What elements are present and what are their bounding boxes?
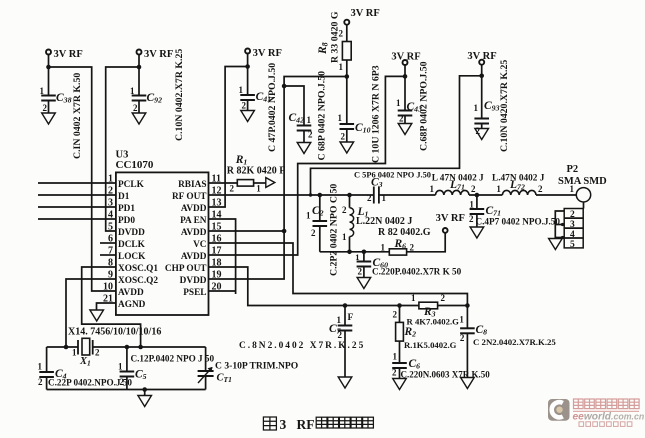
svg-text:1: 1 — [342, 232, 347, 242]
svg-text:2: 2 — [393, 310, 398, 320]
svg-text:2: 2 — [120, 377, 125, 387]
svg-text:XOSC.Q2: XOSC.Q2 — [118, 276, 158, 286]
svg-text:2: 2 — [469, 214, 474, 224]
svg-text:3V RF: 3V RF — [253, 48, 282, 59]
svg-text:R.1K5.0402.G: R.1K5.0402.G — [404, 340, 457, 350]
svg-text:R 82K 0420 F: R 82K 0420 F — [227, 166, 286, 177]
svg-text:X1: X1 — [79, 356, 91, 368]
svg-text:PD0: PD0 — [118, 216, 135, 226]
svg-text:2: 2 — [460, 333, 465, 343]
svg-text:2: 2 — [358, 267, 363, 277]
svg-text:X14. 7456/10/10/10/16: X14. 7456/10/10/10/16 — [68, 327, 161, 338]
svg-text:1: 1 — [239, 85, 244, 95]
svg-text:2: 2 — [471, 184, 476, 194]
svg-text:1: 1 — [38, 362, 43, 372]
svg-text:RF OUT: RF OUT — [172, 192, 207, 202]
svg-text:AVDD: AVDD — [118, 288, 144, 298]
svg-text:2: 2 — [308, 130, 313, 140]
svg-text:DVDD: DVDD — [118, 228, 145, 238]
svg-text:C.10N 0420.X7R K.25: C.10N 0420.X7R K.25 — [499, 60, 510, 152]
svg-text:L.47N 0402 J: L.47N 0402 J — [492, 173, 545, 183]
svg-text:3: 3 — [570, 220, 575, 230]
svg-text:13: 13 — [212, 198, 222, 209]
svg-text:1: 1 — [393, 352, 398, 362]
svg-text:C.220P.0402.X7R K 50: C.220P.0402.X7R K 50 — [372, 267, 462, 277]
svg-text:P2: P2 — [567, 164, 579, 175]
svg-text:2: 2 — [570, 210, 575, 220]
svg-text:2: 2 — [538, 184, 543, 194]
svg-text:RF: RF — [297, 417, 315, 432]
svg-text:C 47P.0402 NPO.J.50: C 47P.0402 NPO.J.50 — [267, 63, 278, 152]
svg-text:1: 1 — [381, 242, 386, 252]
svg-text:LOCK: LOCK — [118, 252, 146, 262]
svg-text:1: 1 — [355, 252, 359, 262]
svg-text:F: F — [348, 313, 354, 323]
svg-text:15: 15 — [212, 222, 222, 233]
svg-text:DCLK: DCLK — [118, 240, 146, 250]
svg-text:1: 1 — [307, 115, 312, 125]
svg-text:2: 2 — [392, 368, 397, 378]
svg-text:5: 5 — [108, 222, 113, 233]
svg-text:2: 2 — [242, 101, 247, 111]
svg-text:L.22N 0402 J: L.22N 0402 J — [356, 216, 412, 227]
svg-text:1: 1 — [337, 315, 342, 325]
svg-text:C.220N.0603 X7R K.50: C.220N.0603 X7R K.50 — [401, 370, 491, 380]
svg-text:CHP OUT: CHP OUT — [165, 264, 207, 274]
svg-text:C 68P 0402 NPO.J.50: C 68P 0402 NPO.J.50 — [317, 71, 328, 161]
svg-text:PD1: PD1 — [118, 204, 135, 214]
svg-text:1: 1 — [496, 184, 501, 194]
svg-text:C 3-10P TRIM.NPO: C 3-10P TRIM.NPO — [215, 361, 298, 372]
svg-text:1: 1 — [396, 98, 401, 108]
svg-text:C.2P2 0402 NPO C 50: C.2P2 0402 NPO C 50 — [329, 184, 340, 276]
svg-text:1: 1 — [570, 184, 575, 194]
svg-text:2: 2 — [410, 242, 415, 252]
svg-text:3V RF: 3V RF — [467, 51, 496, 62]
svg-text:AVDD: AVDD — [181, 252, 207, 262]
svg-text:3V RF: 3V RF — [351, 8, 380, 19]
svg-text:DVDD: DVDD — [180, 276, 207, 286]
svg-text:19: 19 — [212, 270, 222, 281]
svg-text:4: 4 — [570, 230, 575, 240]
svg-text:1: 1 — [40, 86, 45, 96]
svg-text:17: 17 — [212, 246, 222, 257]
svg-text:SMA SMD: SMA SMD — [558, 176, 607, 187]
svg-text:R 4K7.0402.G: R 4K7.0402.G — [407, 317, 460, 327]
svg-text:2: 2 — [133, 103, 138, 113]
svg-text:1: 1 — [411, 293, 416, 303]
svg-text:3V RF: 3V RF — [391, 52, 420, 63]
svg-text:XOSC.Q1: XOSC.Q1 — [118, 264, 158, 274]
svg-text:PCLK: PCLK — [118, 180, 145, 190]
svg-text:C 5P6 0402 NPO J.50: C 5P6 0402 NPO J.50 — [354, 170, 431, 179]
svg-text:eeworld.com.cn: eeworld.com.cn — [573, 412, 645, 423]
svg-text:D1: D1 — [118, 192, 130, 202]
svg-text:10: 10 — [103, 282, 113, 293]
svg-text:1: 1 — [256, 184, 261, 194]
svg-text:2: 2 — [230, 184, 235, 194]
svg-text:C.4P7 0402 NPO.J.50: C.4P7 0402 NPO.J.50 — [476, 217, 561, 227]
svg-text:C.10N 0402.X7R K.25: C.10N 0402.X7R K.25 — [174, 49, 185, 141]
svg-text:1: 1 — [118, 362, 123, 372]
svg-text:2: 2 — [441, 293, 446, 303]
svg-text:AVDD: AVDD — [181, 228, 207, 238]
svg-text:2: 2 — [342, 205, 347, 215]
svg-text:2: 2 — [476, 126, 481, 136]
svg-text:CC1070: CC1070 — [116, 159, 154, 171]
svg-text:2: 2 — [367, 193, 372, 203]
svg-text:1: 1 — [72, 348, 77, 358]
svg-text:3V RF: 3V RF — [144, 49, 173, 60]
svg-text:C.IN 0402 X7R K.50: C.IN 0402 X7R K.50 — [72, 73, 83, 159]
svg-text:1: 1 — [474, 103, 479, 113]
svg-text:2: 2 — [341, 132, 346, 142]
svg-text:1: 1 — [306, 211, 311, 221]
svg-text:C.12P.0402 NPO J 50: C.12P.0402 NPO J 50 — [131, 354, 215, 364]
svg-text:1: 1 — [430, 184, 435, 194]
svg-text:R 82 0402.G: R 82 0402.G — [378, 227, 431, 238]
svg-text:R 33 0420 G: R 33 0420 G — [330, 11, 341, 63]
svg-text:C.68P 0402 NPO.J.50: C.68P 0402 NPO.J.50 — [419, 61, 430, 151]
svg-text:2: 2 — [43, 103, 48, 113]
svg-text:1: 1 — [459, 315, 464, 325]
svg-text:C 10U 1206 X7R N 6P3: C 10U 1206 X7R N 6P3 — [371, 65, 382, 163]
svg-text:3V RF: 3V RF — [436, 213, 465, 224]
svg-text:C 2N2.0402.X7R.K.25: C 2N2.0402.X7R.K.25 — [473, 337, 556, 347]
svg-text:AVDD: AVDD — [181, 204, 207, 214]
svg-text:1: 1 — [338, 113, 343, 123]
svg-text:PSEL: PSEL — [183, 288, 206, 298]
svg-text:2: 2 — [95, 348, 100, 358]
svg-text:3V RF: 3V RF — [54, 49, 83, 60]
svg-text:PA EN: PA EN — [180, 216, 207, 226]
svg-text:L 47N 0402 J: L 47N 0402 J — [432, 173, 484, 183]
svg-text:1: 1 — [382, 193, 387, 203]
svg-text:1: 1 — [469, 200, 474, 210]
svg-text:2: 2 — [38, 377, 43, 387]
svg-text:CT1: CT1 — [217, 373, 232, 385]
svg-text:5: 5 — [570, 240, 575, 250]
svg-text:RBIAS: RBIAS — [178, 180, 206, 190]
svg-text:AGND: AGND — [118, 300, 146, 310]
svg-text:2: 2 — [399, 114, 404, 124]
svg-text:C.8N2.0402 X7R.K.25: C.8N2.0402 X7R.K.25 — [239, 341, 365, 351]
svg-text:2: 2 — [338, 330, 343, 340]
svg-text:3: 3 — [280, 417, 287, 432]
svg-text:1: 1 — [130, 86, 135, 96]
svg-text:2: 2 — [311, 228, 316, 238]
svg-text:VC: VC — [193, 240, 206, 250]
